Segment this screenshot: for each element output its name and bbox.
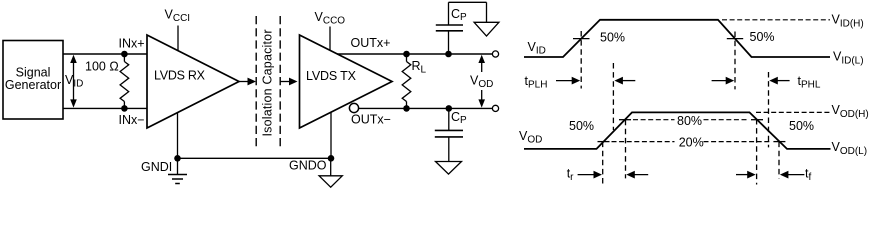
svg-text:VID(L): VID(L) — [833, 50, 864, 67]
wire CP top to ground — [449, 1, 487, 3]
svg-text:GNDO: GNDO — [289, 159, 327, 173]
dashed reference line input fall 50% — [734, 32, 736, 90]
20% tick on output rise — [598, 141, 610, 143]
V_CCI supply label and wire — [165, 8, 191, 51]
ground GNDO (isolated triangle) — [319, 158, 342, 187]
terminal OUTx+ — [492, 51, 498, 57]
node OUTx- / RL — [403, 105, 410, 112]
wire OUTx+ from TX to load — [337, 53, 492, 55]
20% tick on output fall — [773, 141, 785, 143]
20% dashed level line — [612, 141, 772, 143]
svg-text:LVDS TX: LVDS TX — [306, 69, 357, 83]
t_r arrow right — [626, 171, 648, 179]
wire arrow RX output to barrier — [239, 78, 256, 86]
svg-text:50%: 50% — [750, 30, 775, 44]
t_PLH arrow left — [556, 77, 580, 85]
node GNDO — [328, 155, 335, 162]
op-amp U1 LVDS RX — [147, 35, 239, 128]
wire RX to GNDI — [177, 113, 179, 159]
ground bus wire GNDI to GNDO — [178, 157, 332, 159]
wire INx- from generator to RX — [63, 107, 147, 109]
dashed reference line input rise 50% — [580, 31, 582, 89]
80% tick on output fall — [751, 119, 763, 121]
t_PHL arrow left — [712, 77, 735, 85]
svg-text:GNDI: GNDI — [141, 160, 172, 174]
wire OUTx- from TX to load — [359, 107, 493, 109]
node OUTx+ / RL — [403, 51, 410, 58]
50% tick on input rise — [573, 38, 590, 40]
svg-text:20%: 20% — [679, 135, 704, 149]
V_CCO supply label and wire — [315, 10, 346, 50]
t_f arrow left — [736, 171, 756, 179]
svg-text:tf: tf — [805, 167, 811, 184]
dashed reference line t_f end 20% — [778, 142, 780, 179]
svg-text:LVDS RX: LVDS RX — [154, 69, 206, 83]
svg-text:VOD: VOD — [470, 74, 493, 91]
V_OD measurement arrow — [470, 55, 493, 108]
svg-text:CP: CP — [451, 7, 467, 23]
svg-text:INx−: INx− — [119, 113, 145, 127]
ground bottom right (isolated triangle) — [436, 162, 462, 175]
svg-text:tPLH: tPLH — [525, 74, 548, 91]
dashed reference line output rise 50% — [612, 63, 614, 130]
svg-text:50%: 50% — [569, 119, 594, 133]
inversion bubble on OUTx- — [349, 103, 358, 112]
svg-text:VID(H): VID(H) — [832, 13, 864, 30]
svg-text:50%: 50% — [600, 31, 625, 45]
isolation barrier dashed line right — [279, 16, 281, 150]
t_r arrow left — [578, 171, 602, 179]
resistor R termination 100 ohm — [120, 54, 129, 108]
svg-text:CP: CP — [451, 110, 467, 126]
V_OD(H) dashed level line — [756, 111, 830, 113]
svg-text:100 Ω: 100 Ω — [85, 59, 119, 73]
capacitor CP top — [436, 2, 467, 54]
svg-text:RL: RL — [412, 59, 427, 76]
80% dashed level line — [633, 119, 749, 121]
svg-text:Generator: Generator — [5, 78, 61, 92]
waveform V_ID input — [524, 20, 830, 57]
svg-text:80%: 80% — [677, 114, 702, 128]
dashed reference line t_r end 80% — [625, 120, 627, 179]
wire INx+ from generator to RX — [63, 53, 147, 55]
svg-text:VCCO: VCCO — [315, 10, 346, 27]
ground top right (isolated triangle) — [474, 2, 499, 36]
svg-text:INx+: INx+ — [119, 37, 145, 51]
svg-text:tr: tr — [567, 167, 574, 184]
dashed reference line output fall 50% — [768, 72, 770, 147]
terminal OUTx- — [492, 105, 498, 111]
V_ID(H) dashed level line — [722, 19, 830, 21]
resistor RL — [402, 54, 426, 108]
svg-text:VOD: VOD — [519, 129, 542, 146]
50% tick on input fall — [727, 38, 743, 40]
svg-text:VID: VID — [65, 73, 83, 90]
node junction INx- — [121, 105, 128, 112]
capacitor CP bottom — [435, 108, 467, 161]
V_ID measurement arrow — [65, 55, 83, 108]
t_f arrow right — [780, 171, 805, 179]
node junction INx+ — [121, 51, 128, 58]
svg-text:VID: VID — [528, 40, 546, 57]
svg-text:OUTx+: OUTx+ — [351, 36, 391, 50]
isolation barrier dashed line left — [255, 16, 257, 150]
ground GNDI (3-bar earth) — [168, 158, 187, 183]
t_PHL arrow right — [769, 77, 789, 85]
op-amp U2 LVDS TX — [300, 35, 393, 128]
svg-text:VOD(H): VOD(H) — [832, 103, 869, 120]
svg-text:VOD(L): VOD(L) — [832, 140, 868, 157]
wire TX to GNDO — [330, 112, 332, 158]
svg-text:tPHL: tPHL — [798, 74, 821, 91]
dashed reference line t_r start 20% — [602, 142, 604, 185]
svg-text:OUTx−: OUTx− — [351, 112, 391, 126]
node CP bottom — [446, 105, 453, 112]
t_PLH arrow right — [614, 77, 635, 85]
node CP top — [445, 51, 452, 58]
signal generator box — [3, 41, 63, 120]
dashed reference line t_f start 80% — [756, 119, 758, 185]
80% tick on output rise — [619, 119, 631, 121]
wire arrow barrier to TX input — [280, 78, 297, 86]
node GNDI — [174, 155, 181, 162]
svg-text:Isolation Capacitor: Isolation Capacitor — [261, 30, 275, 137]
svg-text:50%: 50% — [789, 119, 814, 133]
waveform V_OD output — [524, 112, 831, 148]
svg-text:VCCI: VCCI — [165, 8, 191, 25]
